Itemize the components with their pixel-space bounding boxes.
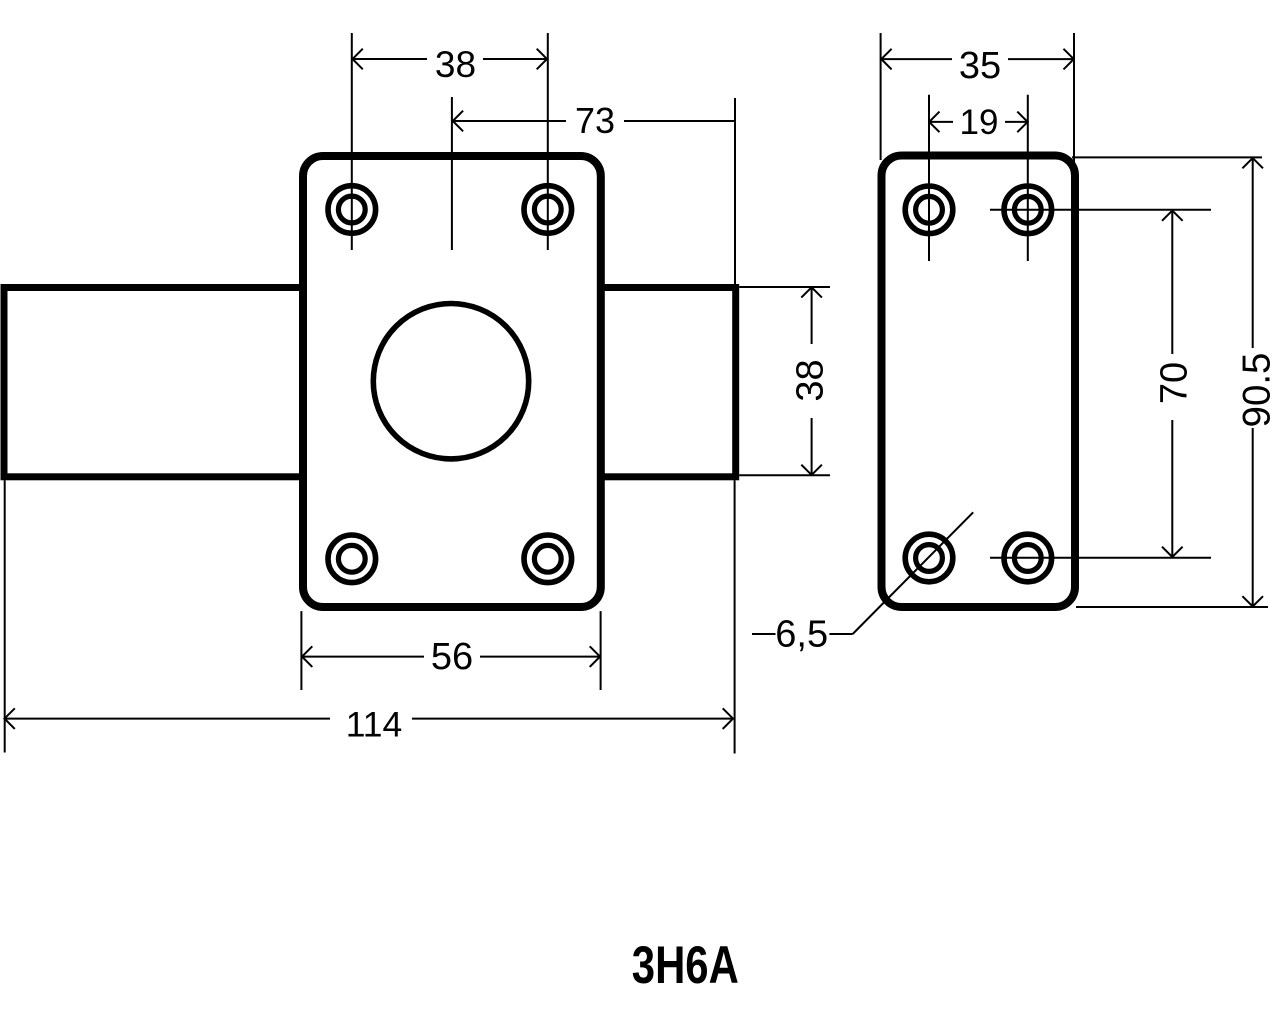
extension line 90.5 top horizontal (1072, 156, 1262, 158)
leader 6,5 dash left (752, 633, 776, 635)
dimension 35 (side width) (881, 49, 1074, 70)
lock body bar (front view) (4, 288, 736, 477)
extension line bar top horizontal (739, 286, 830, 288)
extension line 35 left vertical (side) (880, 33, 882, 160)
faceplate (front view) (303, 156, 601, 607)
extension line 114 left vertical (4, 480, 6, 752)
dimension 70 (side hole vertical spacing) (1162, 211, 1183, 558)
screw hole front bottom-right (524, 535, 572, 583)
svg-text:35: 35 (959, 45, 1001, 87)
dimension 56 (faceplate width) (302, 646, 600, 667)
extension line 56 left vertical (300, 611, 302, 690)
side plate (side view) (882, 156, 1076, 608)
extension line bar right-end vertical (734, 98, 736, 284)
screw hole side bottom-left (905, 534, 953, 582)
extension line bar bottom horizontal (739, 474, 830, 476)
cylinder hole (373, 304, 528, 459)
svg-text:19: 19 (960, 103, 999, 142)
extension line 70 top horizontal (990, 209, 1211, 211)
svg-text:56: 56 (431, 636, 473, 678)
screw hole side bottom-right (1004, 534, 1052, 582)
extension line front hole left vertical (351, 33, 353, 250)
svg-text:114: 114 (346, 705, 403, 745)
svg-text:38: 38 (435, 44, 476, 85)
extension line side hole left vertical (928, 95, 930, 261)
extension line 70 bottom horizontal (990, 557, 1211, 559)
extension line front hole right vertical (547, 33, 549, 250)
leader 6,5 dash right (829, 633, 852, 635)
svg-text:3H6A: 3H6A (632, 936, 739, 995)
svg-text:73: 73 (575, 100, 615, 141)
extension line side hole right vertical (1027, 95, 1029, 261)
screw hole front top-left (328, 186, 376, 234)
extension line 56 right vertical (600, 611, 602, 690)
screw hole side top-right (1004, 186, 1052, 234)
svg-text:38: 38 (790, 359, 832, 401)
screw hole front top-right (524, 186, 572, 234)
extension line 90.5 bottom horizontal (1076, 606, 1268, 608)
svg-text:70: 70 (1154, 362, 1196, 404)
svg-text:6,5: 6,5 (775, 613, 828, 655)
screw hole side top-left (905, 186, 953, 234)
dimension 19 (side hole spacing) (929, 112, 1027, 133)
screw hole front bottom-left (328, 535, 376, 583)
dimension 73 (front) (453, 111, 736, 132)
svg-text:90.5: 90.5 (1236, 353, 1279, 428)
extension line 35 right vertical (side) (1073, 33, 1075, 167)
dimension 90.5 (side height) (1242, 158, 1263, 607)
leader 6,5 diagonal (853, 512, 974, 634)
dimension 38 top (front) (353, 49, 548, 70)
extension line 114 right vertical (734, 480, 736, 753)
dimension 38 right (bar height) (801, 287, 822, 475)
dimension 114 (overall length) (5, 708, 734, 729)
extension line front center vertical (451, 97, 453, 250)
